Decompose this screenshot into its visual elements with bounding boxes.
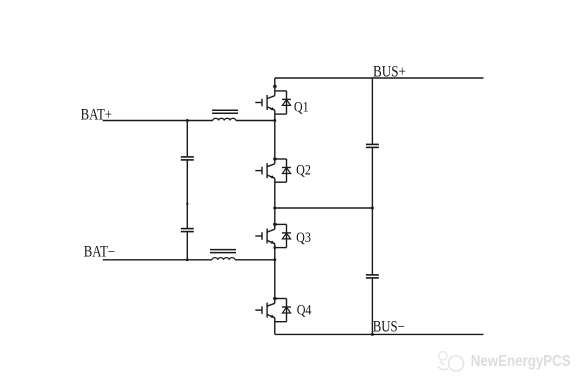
inductor L2 — [210, 250, 236, 260]
wire leg segment 2 — [274, 110, 276, 120]
svg-text:Q3: Q3 — [296, 230, 311, 246]
junction leg / mid wire — [273, 207, 276, 210]
wire BUS- rail — [275, 333, 484, 335]
junction BAT- / leg — [273, 258, 276, 261]
junction BUS- / right branch — [371, 333, 374, 336]
junction BAT- / left branch — [186, 258, 189, 261]
diode D1 (anti-parallel with Q1) — [275, 91, 291, 114]
wire left branch lower — [186, 232, 188, 260]
svg-text:BAT+: BAT+ — [81, 106, 112, 123]
svg-text:BUS+: BUS+ — [373, 63, 406, 80]
wire leg segment 4 — [274, 178, 276, 208]
diode D3 (anti-parallel with Q3) — [275, 224, 291, 247]
transistor Q3 (IGBT) — [255, 223, 276, 244]
capacitor C4 — [366, 275, 379, 278]
diode D4 (anti-parallel with Q4) — [275, 299, 291, 322]
junction Q3 emitter / D3 — [273, 246, 276, 249]
diode D2 (anti-parallel with Q2) — [275, 159, 291, 182]
wire leg segment 7 — [274, 260, 276, 304]
junction node left-mid — [186, 203, 188, 205]
svg-text:Q4: Q4 — [297, 303, 312, 319]
svg-text:BUS−: BUS− — [373, 318, 405, 335]
capacitor C3 — [366, 144, 379, 147]
wire left branch upper — [186, 121, 188, 157]
inductor L1 — [212, 110, 238, 120]
svg-text:BAT−: BAT− — [84, 243, 115, 260]
wire leg segment 1 — [274, 78, 276, 96]
wire BAT- — [103, 259, 212, 261]
watermark logo — [438, 352, 464, 372]
capacitor C2 — [181, 229, 194, 232]
junction BAT+ / leg — [273, 119, 276, 122]
junction BAT+ / left branch — [186, 119, 189, 122]
svg-text:Q1: Q1 — [294, 99, 309, 115]
wire right branch middle — [371, 147, 373, 275]
transistor Q2 (IGBT) — [255, 158, 276, 179]
junction mid wire / right branch — [371, 207, 374, 210]
transistor Q1 (IGBT) — [255, 85, 276, 110]
wire BUS+ rail — [275, 77, 484, 79]
wire right branch lower — [371, 278, 373, 335]
svg-text:NewEnergyPCS: NewEnergyPCS — [471, 353, 571, 370]
wire leg segment 8 — [274, 318, 276, 335]
wire leg segment 3 — [274, 121, 276, 164]
transistor Q4 (IGBT) — [255, 297, 276, 318]
wire BAT+ — [103, 120, 213, 122]
wire leg segment 6 — [274, 244, 276, 260]
capacitor C1 — [181, 157, 194, 160]
svg-text:Q2: Q2 — [296, 162, 311, 178]
wire BAT- (right of L2) — [235, 259, 275, 261]
wire midpoint (leg to DC-link midpoint) — [275, 207, 373, 209]
wire BAT+ (right of L1) — [236, 120, 275, 122]
wire leg segment 5 — [274, 208, 276, 229]
wire left branch middle — [186, 160, 188, 229]
wire right branch upper — [371, 78, 373, 144]
